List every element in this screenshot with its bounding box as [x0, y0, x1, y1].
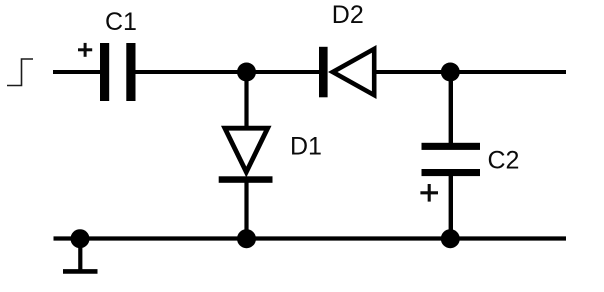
diode D2 cathode bar [319, 47, 328, 98]
ground bar [63, 269, 98, 274]
ground stub wire [78, 239, 82, 270]
capacitor C2 bottom plate [422, 169, 481, 176]
diode D1 triangle (points down) [221, 126, 272, 178]
bottom ground rail wire [54, 236, 567, 240]
node E junction dot (ground tap) [71, 229, 90, 248]
wire: D1 cathode down to node C [244, 182, 248, 240]
diode D2 triangle (points left) [328, 45, 377, 99]
svg-text:D1: D1 [290, 133, 322, 161]
wire: node B down to C2 top plate [449, 72, 453, 144]
node A junction dot [237, 63, 256, 82]
polarity plus of C2 [420, 184, 438, 202]
capacitor C2 top plate [422, 143, 481, 150]
wire: C1 to node A and on to D2 cathode [136, 70, 321, 74]
svg-text:C2: C2 [488, 147, 520, 175]
node D junction dot (below C2) [441, 229, 460, 248]
capacitor C1 left plate [100, 43, 109, 101]
capacitor C1 right plate [126, 43, 135, 101]
polarity plus of C1 [78, 43, 92, 57]
svg-text:C1: C1 [105, 8, 137, 36]
wire: input to C1 left plate [53, 70, 101, 74]
node C junction dot (below D1) [237, 229, 256, 248]
wire: D2 anode to node B and right output [376, 70, 566, 74]
svg-text:D2: D2 [332, 1, 364, 29]
node B junction dot [441, 63, 460, 82]
diode D1 cathode bar [219, 176, 273, 183]
input step waveform symbol [7, 59, 33, 86]
wire: C2 bottom plate down to node D [449, 176, 453, 240]
wire: node A down to D1 anode [244, 72, 248, 127]
